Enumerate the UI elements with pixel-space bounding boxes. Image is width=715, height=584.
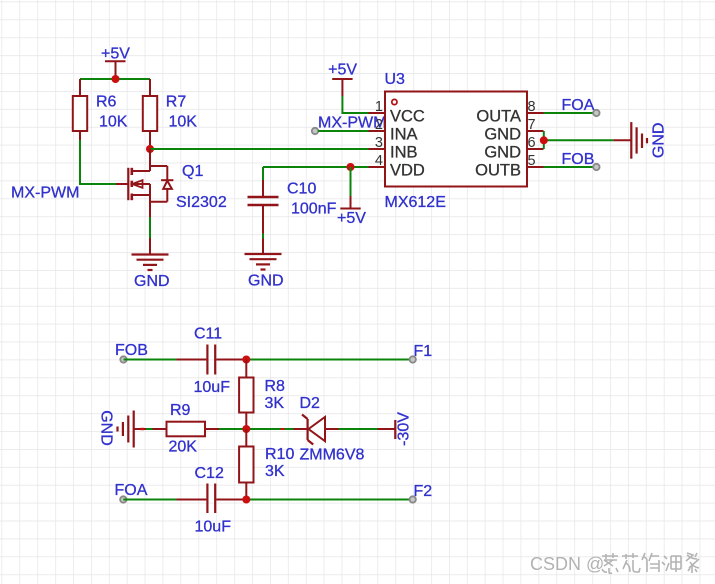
svg-text:R10: R10 — [265, 446, 294, 463]
wire OUTB to FOB — [544, 166, 597, 168]
svg-text:U3: U3 — [385, 71, 406, 88]
resistor R8 — [239, 360, 285, 430]
net port F1 — [410, 343, 433, 363]
IC U3 MX612E — [385, 71, 528, 211]
svg-text:F1: F1 — [414, 343, 433, 360]
svg-text:MX-PWM: MX-PWM — [11, 185, 79, 202]
pin 1 VCC — [369, 99, 425, 126]
wire — [80, 78, 150, 80]
net port F2 — [410, 483, 433, 503]
ground GND (right of U3) — [613, 122, 667, 159]
transistor Q1 — [116, 149, 227, 217]
pin 3 INB — [369, 135, 418, 162]
svg-text:1: 1 — [375, 99, 383, 115]
capacitor C10 — [248, 180, 337, 234]
power +5V (VDD) — [337, 167, 366, 227]
svg-text:R9: R9 — [170, 402, 191, 419]
svg-text:C10: C10 — [287, 181, 316, 198]
capacitor C12 — [177, 465, 244, 536]
net port FOA — [562, 97, 600, 116]
svg-text:ZMM6V8: ZMM6V8 — [300, 447, 365, 464]
net port MX-PWM — [312, 115, 387, 135]
svg-text:FOA: FOA — [562, 97, 595, 114]
svg-text:5: 5 — [528, 153, 536, 169]
wire OUTA to FOA — [544, 112, 597, 114]
svg-text:10uF: 10uF — [194, 379, 231, 396]
wire — [146, 428, 153, 430]
svg-text:4: 4 — [375, 153, 383, 169]
svg-text:-30V: -30V — [396, 412, 413, 446]
svg-text:Q1: Q1 — [182, 163, 203, 180]
net port FOA (bottom) — [115, 482, 148, 503]
net port FOB (bottom) — [115, 342, 148, 363]
svg-text:10uF: 10uF — [195, 519, 232, 536]
svg-text:7: 7 — [528, 117, 536, 133]
diode D2 ZMM6V8 — [294, 395, 365, 464]
svg-text:OUTB: OUTB — [475, 162, 521, 180]
wire — [124, 359, 178, 361]
svg-text:2: 2 — [375, 117, 383, 133]
svg-text:VDD: VDD — [390, 162, 425, 180]
svg-text:+5V: +5V — [101, 46, 130, 63]
svg-text:FOB: FOB — [562, 151, 595, 168]
ground GND (left, mid row) — [98, 410, 147, 447]
power +5V (pin1) — [328, 62, 357, 97]
net port FOB — [562, 151, 600, 170]
svg-text:FOB: FOB — [115, 342, 148, 359]
svg-text:INA: INA — [390, 126, 418, 144]
wire — [339, 428, 378, 430]
wire INB — [150, 148, 369, 150]
svg-text:6: 6 — [528, 135, 536, 151]
power -30V — [378, 412, 413, 446]
wire — [262, 234, 264, 239]
svg-text:INB: INB — [390, 144, 418, 162]
wire — [123, 499, 177, 501]
svg-text:OUTA: OUTA — [476, 108, 521, 126]
svg-text:F2: F2 — [414, 483, 433, 500]
svg-text:+5V: +5V — [337, 210, 366, 227]
pin 7 GND — [484, 117, 543, 144]
svg-text:SI2302: SI2302 — [176, 194, 227, 211]
pin 6 GND — [484, 135, 543, 162]
ground GND (under C10) — [245, 239, 284, 290]
resistor R6 — [73, 79, 128, 140]
junction VDD — [347, 163, 355, 171]
svg-text:GND: GND — [98, 410, 115, 446]
svg-text:GND: GND — [484, 144, 521, 162]
svg-text:GND: GND — [484, 126, 521, 144]
svg-text:100nF: 100nF — [291, 201, 337, 218]
svg-text:3K: 3K — [265, 463, 285, 480]
svg-text:C11: C11 — [194, 326, 222, 343]
wire — [219, 428, 294, 430]
wire — [244, 359, 413, 361]
svg-text:GND: GND — [248, 273, 284, 290]
svg-text:VCC: VCC — [390, 108, 425, 126]
wire to VCC — [342, 96, 368, 113]
junction F1 node — [242, 356, 250, 364]
svg-text:3K: 3K — [265, 395, 285, 412]
junction pin6 — [540, 136, 548, 144]
svg-text:+5V: +5V — [328, 62, 357, 79]
svg-text:10K: 10K — [169, 114, 198, 131]
svg-text:FOA: FOA — [115, 482, 148, 499]
resistor R9 — [153, 402, 220, 456]
junction — [112, 75, 120, 83]
ground GND (under Q1) — [132, 238, 170, 290]
pin 5 OUTB — [475, 153, 543, 180]
junction node drain — [146, 145, 154, 153]
capacitor C11 — [177, 326, 244, 397]
svg-text:C12: C12 — [195, 465, 224, 482]
svg-text:R6: R6 — [96, 94, 117, 111]
pin 2 INA — [369, 117, 418, 144]
wire GND bracket — [544, 131, 614, 149]
watermark — [530, 553, 699, 574]
power +5V (left) — [101, 46, 130, 80]
svg-text:8: 8 — [528, 99, 536, 115]
svg-text:10K: 10K — [99, 114, 128, 131]
pin 8 OUTA — [476, 99, 543, 126]
svg-text:R8: R8 — [265, 378, 286, 395]
svg-text:R7: R7 — [166, 94, 187, 111]
svg-text:20K: 20K — [169, 439, 198, 456]
svg-text:CSDN @: CSDN @ — [530, 554, 604, 574]
pin 4 VDD — [369, 153, 425, 180]
resistor R10 — [239, 429, 294, 500]
svg-text:GND: GND — [651, 123, 668, 159]
wire — [80, 140, 116, 184]
wire — [244, 499, 413, 501]
svg-text:D2: D2 — [300, 395, 321, 412]
svg-text:GND: GND — [134, 273, 170, 290]
junction F2 node — [242, 496, 250, 504]
wire source — [149, 217, 151, 238]
wire INA — [318, 130, 369, 132]
wire VDD row — [263, 166, 369, 168]
svg-text:MX612E: MX612E — [385, 194, 446, 211]
junction mid node — [242, 425, 250, 433]
svg-text:3: 3 — [375, 135, 383, 151]
resistor R7 — [143, 79, 197, 149]
